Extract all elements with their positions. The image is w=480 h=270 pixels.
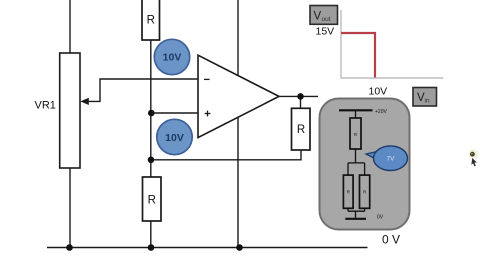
- wire: top rail to VR1 top: [69, 0, 71, 53]
- inset resistor R (top): [350, 118, 361, 149]
- svg-text:R: R: [148, 195, 156, 207]
- node: VR1 / 0V rail junction: [66, 244, 73, 251]
- wire: load resistor bottom to divider mid node: [151, 150, 301, 160]
- wire: VR1 wiper arrow to op-amp inverting input: [80, 79, 198, 105]
- inset wire: rejoin and 0V bar: [345, 208, 383, 220]
- svg-text:R: R: [147, 15, 155, 27]
- node: divider / 0V rail junction: [148, 244, 155, 251]
- wire: op-amp positive supply: [237, 0, 239, 75]
- wire: VR1 bottom to 0V rail: [69, 168, 71, 248]
- inset wire: bar to R: [355, 110, 357, 118]
- callout bubble 7V: [366, 146, 408, 171]
- inset resistor R (left parallel): [343, 175, 353, 208]
- svg-text:+20V: +20V: [375, 109, 387, 115]
- potentiometer VR1: [35, 53, 81, 168]
- resistor R1 (top divider R): [142, 0, 160, 40]
- svg-text:V: V: [314, 11, 322, 23]
- inset +20V supply bar: [339, 109, 387, 115]
- voltage indicator 10V (upper): [154, 39, 189, 74]
- svg-text:R: R: [297, 124, 305, 136]
- graph axes Vout vs Vin: [341, 10, 444, 78]
- svg-text:10V: 10V: [369, 86, 388, 98]
- wire: non-inverting input node to op-amp: [151, 112, 198, 114]
- resistor R3 (output load R): [292, 96, 311, 150]
- wire: op-amp output: [279, 95, 318, 97]
- wire: top rail to resistor R1 / divider chain down to 0V rail: [150, 0, 152, 248]
- svg-text:10V: 10V: [165, 132, 184, 144]
- node: divider mid junction: [148, 157, 155, 164]
- graph curve (comparator step): [341, 33, 375, 77]
- voltage indicator 10V (lower): [157, 119, 192, 154]
- svg-text:15V: 15V: [316, 26, 335, 38]
- resistor R2 (bottom divider R): [143, 177, 162, 221]
- node: supply / 0V rail junction: [236, 244, 243, 251]
- inset panel (divider explanation): [320, 99, 410, 230]
- svg-text:10V: 10V: [163, 52, 182, 64]
- wire: 0V bottom rail: [47, 247, 368, 249]
- node: non-inverting input junction: [148, 110, 155, 117]
- label Vin box: [413, 88, 437, 107]
- svg-text:7V: 7V: [387, 156, 396, 163]
- node: output junction: [297, 93, 304, 100]
- svg-text:out: out: [322, 16, 331, 23]
- svg-text:VR1: VR1: [35, 100, 56, 112]
- svg-text:0 V: 0 V: [382, 233, 400, 247]
- svg-text:0V: 0V: [377, 215, 384, 221]
- svg-text:in: in: [425, 97, 430, 104]
- op-amp U1: [198, 55, 279, 137]
- inset wire: R to mid node and split: [348, 149, 365, 175]
- wire: op-amp negative supply to 0V rail: [237, 118, 239, 248]
- cursor artifact: [469, 149, 479, 166]
- inset resistor R (right parallel): [360, 175, 370, 208]
- label Vout box: [310, 6, 338, 25]
